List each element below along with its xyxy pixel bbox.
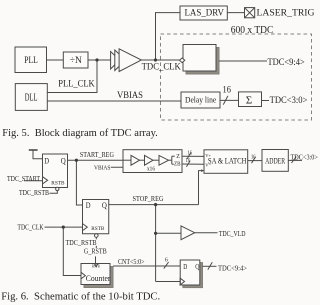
svg-text:VBIAS: VBIAS bbox=[94, 164, 111, 171]
svg-text:TDC_CLK: TDC_CLK bbox=[142, 62, 181, 72]
svg-text:600 x TDC: 600 x TDC bbox=[231, 25, 274, 36]
svg-text:Q: Q bbox=[102, 201, 107, 210]
svg-text:VBIAS: VBIAS bbox=[117, 90, 143, 101]
svg-text:LAS_DRV: LAS_DRV bbox=[184, 8, 224, 18]
svg-text:TDC<9:4>: TDC<9:4> bbox=[218, 264, 247, 273]
svg-text:D: D bbox=[86, 201, 91, 210]
svg-text:TDC<9:4>: TDC<9:4> bbox=[268, 57, 306, 68]
svg-text:RSTB: RSTB bbox=[51, 180, 64, 186]
svg-text:PLL: PLL bbox=[24, 56, 38, 66]
svg-text:Z: Z bbox=[176, 154, 180, 160]
svg-text:D: D bbox=[44, 156, 49, 165]
svg-text:Fig. 6. Schematic of the 10-b: Fig. 6. Schematic of the 10-bit TDC. bbox=[1, 291, 160, 303]
svg-text:Σ: Σ bbox=[246, 95, 252, 107]
svg-text:Counter: Counter bbox=[86, 274, 111, 283]
svg-text:D: D bbox=[183, 264, 187, 271]
svg-text:16: 16 bbox=[188, 150, 193, 156]
svg-text:x16: x16 bbox=[147, 165, 155, 172]
svg-text:TDC_RSTB: TDC_RSTB bbox=[19, 188, 49, 197]
svg-text:÷N: ÷N bbox=[70, 56, 82, 66]
svg-text:START_REG: START_REG bbox=[80, 150, 115, 159]
svg-text:16: 16 bbox=[186, 158, 191, 164]
svg-text:G_RSTB: G_RSTB bbox=[84, 248, 107, 256]
svg-text:16: 16 bbox=[223, 86, 232, 96]
svg-text:Q: Q bbox=[195, 264, 199, 271]
svg-text:RSTB: RSTB bbox=[91, 226, 104, 232]
svg-text:ZB: ZB bbox=[174, 161, 181, 167]
svg-text:Delay line: Delay line bbox=[185, 94, 216, 104]
svg-text:ADDER: ADDER bbox=[265, 157, 285, 166]
svg-text:DLL: DLL bbox=[25, 92, 38, 103]
svg-text:TDC_CLK: TDC_CLK bbox=[17, 222, 44, 231]
svg-text:Fig. 5. Block diagram of TDC: Fig. 5. Block diagram of TDC array. bbox=[2, 127, 158, 139]
svg-text:TDC_VLD: TDC_VLD bbox=[219, 229, 246, 238]
svg-text:16: 16 bbox=[251, 154, 256, 160]
svg-text:RSTB: RSTB bbox=[92, 263, 100, 268]
svg-text:PLL_CLK: PLL_CLK bbox=[58, 79, 95, 89]
svg-text:SA & LATCH: SA & LATCH bbox=[208, 156, 247, 165]
svg-text:TDC_RSTB: TDC_RSTB bbox=[66, 238, 97, 247]
svg-text:6: 6 bbox=[165, 257, 168, 263]
svg-text:Q: Q bbox=[61, 156, 66, 165]
svg-text:TDC_START: TDC_START bbox=[7, 174, 40, 183]
svg-text:CNT<5:0>: CNT<5:0> bbox=[118, 259, 145, 266]
svg-text:STOP_REG: STOP_REG bbox=[133, 194, 165, 203]
svg-text:LASER_TRIG: LASER_TRIG bbox=[257, 8, 315, 18]
svg-text:TDC<3:0>: TDC<3:0> bbox=[291, 152, 319, 161]
svg-text:TDC<3:0>: TDC<3:0> bbox=[270, 96, 308, 106]
